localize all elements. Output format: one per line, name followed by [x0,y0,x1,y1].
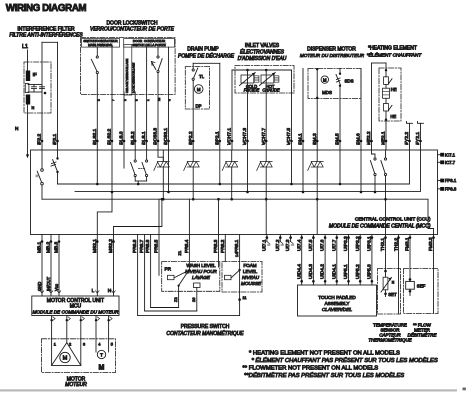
relay S3b blade [142,162,146,174]
dispenser switch actuator [337,78,341,82]
wire MB.2 [50,235,52,297]
wire PR8.7 run [145,310,197,312]
wire IF2.2 [41,42,43,150]
fuse lower tick [388,105,392,110]
wire DCS3.3 upper [157,47,159,56]
junction MB.2 [50,240,53,243]
junction HE box bottom [385,118,387,120]
valve cold arrow [240,73,256,86]
svg-text:IC7.1: IC7.1 [445,152,456,157]
svg-text:**DÉBITMÈTRE PAS PRÉSENT SUR: **DÉBITMÈTRE PAS PRÉSENT SUR TOUS LES MO… [244,372,404,379]
inductor IF upper winding [26,71,30,82]
flow sensor SEF body [406,281,415,289]
junction DLS2.2 on busB [111,191,114,194]
wire PR8.5 feed [158,199,160,234]
wire S2 to busA [57,173,59,184]
relay S1 contact bottom [41,182,44,185]
drain pump motor M [194,85,203,94]
junction UI7.6 upper [324,236,327,239]
junction TH2.1 [384,236,387,239]
svg-text:N: N [108,288,112,294]
svg-text:MOTEUR DU DISTRIBUTEUR: MOTEUR DU DISTRIBUTEUR [300,53,365,58]
svg-text:N: N [32,106,35,110]
svg-text:SWITCH DE LA PORTE: SWITCH DE LA PORTE [132,43,166,47]
junction motor pin 4 [95,319,97,321]
wire UIP3.2/UIP5.2 [359,235,361,286]
svg-text:UIP3.3: UIP3.3 [343,236,349,251]
heater hatch 2 [383,94,390,96]
arrow motor pin 2 [68,317,70,321]
junction UID4.2 lower [324,280,327,283]
wire TH2.1 drop [385,235,387,278]
svg-text:FROIDE: FROIDE [244,88,260,93]
wire motor pin 3 [80,316,82,366]
wire DLS2.1 lower [96,74,98,150]
wash contact 2a [168,275,175,279]
wire filter loop top [42,41,58,43]
svg-text:DISPENSER MOTOR: DISPENSER MOTOR [307,47,356,53]
thermal fuse lower [384,103,389,111]
dispenser motor box [308,69,361,99]
arrow MB.1 into MCU [40,291,44,294]
wire S1 to busC [41,185,43,199]
svg-text:THERMOMÉTRIQUE: THERMOMÉTRIQUE [368,337,412,343]
svg-text:M: M [63,356,68,362]
flow sensor bottom node [409,290,412,293]
arrow MB.2 into MCU [49,291,53,294]
wire DCS3.3 to triac jog [158,150,163,162]
connector pin DM.3 [316,140,319,143]
junction FM3.1 [409,236,412,239]
junction motor pin 2 [66,319,68,321]
wire DM.1 [302,69,304,151]
door switch label box [124,39,175,48]
connector pin FY2.2 [408,140,411,143]
wire T2 drain pump triac bottom [192,167,194,199]
wire inlet valves rail [232,69,292,71]
valve hot coil [274,76,279,82]
main switch blade [91,59,97,71]
connector pin DLS.3 [123,140,126,143]
junction VCH7.3 on busB [246,191,249,194]
wire PR8.8 run [138,314,240,316]
wire HE2.1 into CCU [385,150,387,158]
motor M circle [60,352,70,362]
svg-text:Vcc: Vcc [54,284,59,291]
wire PR8.7 drop [144,235,146,312]
door lock outer box [81,38,176,95]
wire T4 inlet valve triac top stub [265,150,267,162]
terminal stub FP8.1 [438,180,441,182]
wire DM.3 [316,69,318,151]
wire UI7.2 stub [279,235,281,242]
wire T2 drain pump triac top stub [192,150,194,162]
junction UI7.7 upper [336,236,339,239]
relay S4 contact bottom [374,173,376,175]
wire motor pin 4 [95,316,97,353]
dispenser switch contact bottom [339,85,341,87]
connector pin DM.5 [339,140,342,143]
wire MB.1 [41,235,43,297]
svg-text:Z1: Z1 [177,250,182,255]
junction S5 on busC [384,198,387,201]
junction PR8.3 feed on busC [217,198,220,201]
wire T3 inlet valve triac bottom [231,167,233,199]
connector tick FY2.2 [407,122,413,124]
svg-text:PR: PR [165,267,172,272]
junction UI7.5 upper [312,236,315,239]
wire FM3.1 drop [409,235,411,282]
wire T1 door triac top stub [162,150,164,162]
svg-text:HE: HE [390,114,396,119]
wire TH2.2 drop [398,235,400,314]
junction MB.1 [41,240,44,243]
wire PR8.5 drop [158,235,160,276]
wire S4 to busB [374,176,376,192]
wire L1 mains lower [27,105,29,157]
wire motor pin 2 [66,316,68,343]
connector pin DLS.1 [145,140,148,143]
junction UI7.2 [279,236,282,239]
relay S4 blade [370,161,374,174]
arrow motor pin 3 [82,317,84,321]
junction S4 on busB [374,191,377,194]
wire T5 dispenser triac bottom [316,167,318,199]
junction UIP3.3 upper [347,236,350,239]
thermistor bottom node [384,293,387,296]
relay S3a blade [131,162,135,174]
relay S5 blade [381,161,385,174]
resistor in filter [25,84,29,93]
wire MS2.1 to MCU [96,235,98,297]
svg-text:NIVEAU POUR: NIVEAU POUR [185,269,217,274]
main switch contact top [96,56,98,58]
wire IF2.1 [57,42,59,150]
svg-text:2: 2 [69,341,71,346]
junction T3 inlet valve triac on busC [230,198,233,201]
wire heating top rail [372,62,387,64]
junction DM.3 box bottom [316,97,318,99]
thermistor body [383,277,388,290]
svg-text:SET: SET [388,292,397,297]
junction MS2.2 [112,240,115,243]
door switch blade [158,59,162,71]
wire HE2.2 [371,63,373,150]
valve cold coil [254,76,259,82]
fuse upper tick [388,79,392,84]
wire Z2 riser [178,286,180,308]
connector tick FY2.1 [418,122,424,124]
svg-text:INLET VALVES: INLET VALVES [245,43,280,49]
wire MS2.2 to MCU [113,235,115,297]
wire DLS.3 into CCU stub [123,150,125,168]
connector pin DCS3.3 [157,140,160,143]
wire FY2.2 [409,123,411,150]
junction UID4.3 lower [312,280,315,283]
wire filter bottom rail [28,91,42,93]
wire DLS.1 [146,47,148,150]
svg-text:CLAVIER/DEL: CLAVIER/DEL [322,307,353,312]
svg-text:MCU: MCU [70,304,82,310]
bus A [58,150,410,184]
bus B [75,150,421,191]
svg-text:UIP5.1: UIP5.1 [343,264,349,279]
main switch label box [82,39,120,48]
thermistor arrowhead [388,278,391,281]
svg-text:FILTRE ANTI-INTERFÉRENCES: FILTRE ANTI-INTERFÉRENCES [9,32,83,39]
svg-text:* HEATING ELEMENT NOT PRESENT: * HEATING ELEMENT NOT PRESENT ON ALL MOD… [249,351,400,357]
wire PR8.8 drop [137,235,139,316]
motor control unit MCU box [32,296,119,316]
svg-text:PRESSURE SWITCH: PRESSURE SWITCH [181,324,230,330]
svg-text:DP: DP [196,104,202,109]
wire PR8.6 run [151,307,179,309]
svg-text:LEVEL: LEVEL [243,269,258,274]
svg-text:5: 5 [111,341,113,346]
svg-text:MDS: MDS [322,90,332,95]
motor winding triangle [52,343,81,366]
junction foam pin11 [238,298,241,301]
svg-text:UI7.1: UI7.1 [262,239,268,251]
wire T1 door triac bottom [162,167,164,199]
svg-text:IF: IF [33,72,37,78]
wire VCH7.3 [247,70,249,150]
triac T5 dispenser [308,162,324,171]
svg-text:MODULE DE COMMANDE DU MOTEUR: MODULE DE COMMANDE DU MOTEUR [33,310,120,315]
wire PR8.3 feed [218,199,220,234]
wash switch blade upper [175,270,189,277]
junction T2 drain pump triac on busC [192,198,195,201]
wire PR8.4 drop [188,235,190,271]
wire HE2.1 seg3 [385,98,387,103]
heater element HE [383,88,390,98]
wire thermistor tail [385,290,387,297]
wire HE2.1 seg2 [385,84,387,88]
valve hot body [261,75,274,83]
svg-text:TL: TL [199,74,205,79]
wash contact 2b [194,283,201,288]
pump switch TL contact top [192,69,194,71]
thermistor top node [384,270,387,273]
wire UI7.7/UID4.1 [336,235,338,286]
connector pin HE2.1 [385,140,388,143]
wire DLS.2 [134,92,136,150]
wire DM.5 [339,87,341,150]
valve cold body [241,75,254,83]
svg-text:MS2.2: MS2.2 [108,239,114,253]
svg-text:1: 1 [54,341,56,346]
thermistor arrow [381,278,392,293]
dispenser switch blade [336,75,340,85]
relay S3b contact bottom [146,174,148,176]
touch pad box [298,285,377,316]
door switch contact bottom [157,70,159,72]
interference filter box [24,62,51,113]
svg-text:ÉLECTROVANNES: ÉLECTROVANNES [240,49,285,56]
terminal FP8.8 [440,187,444,191]
terminal IC7.1 [440,153,444,157]
svg-text:MS2.1: MS2.1 [92,239,98,253]
wire TH2.1 feed [385,199,387,234]
svg-text:FP8.1: FP8.1 [445,178,457,183]
junction UIP5.2 lower [359,280,362,283]
heater hatch 1 [383,91,390,93]
unlock-lock box [124,45,132,96]
svg-text:N: N [15,126,19,132]
wire UI7.6/UID4.2 [324,235,326,286]
svg-text:UID4.2: UID4.2 [320,264,326,279]
svg-text:L: L [92,288,95,294]
wire DLS.1 into CCU [146,150,148,160]
svg-text:CONTACTEUR MANOMÉTRIQUE: CONTACTEUR MANOMÉTRIQUE [166,330,244,337]
wire PR8.6 drop [150,235,152,308]
dispenser motor M circle [321,76,328,83]
relay S3a contact bottom [134,174,136,176]
flow sensor top node [409,278,412,281]
arrow motor pin 4 [97,317,99,321]
relay S5 contact top [384,158,386,160]
svg-text:UID4.3: UID4.3 [308,264,314,279]
svg-text:UIP5.2: UIP5.2 [355,264,361,279]
svg-text:L1: L1 [22,44,28,50]
connector pin FY2.1 [419,140,422,143]
junction UIP5.3 lower [371,280,374,283]
wire S3 merge [135,180,146,182]
wire PR8.3 drop [218,235,220,268]
main switch contact bottom [96,71,98,73]
svg-text:MOTEUR: MOTEUR [65,382,87,388]
wire DP2.1 into CCU [219,150,221,184]
arrow MS2.2 into MCU [112,291,116,294]
wire DM.6 [360,69,362,151]
svg-text:WIRING DIAGRAM: WIRING DIAGRAM [6,3,87,14]
svg-text:TOUCH PAD/LED: TOUCH PAD/LED [318,295,356,300]
wire foam pin11 drop [239,270,241,315]
wire motor pin 1 [51,316,53,366]
svg-text:UI7.3: UI7.3 [285,239,291,251]
svg-text:UI7.2: UI7.2 [275,239,281,251]
svg-text:NIVEAU: NIVEAU [242,275,260,280]
foam switch blade [232,270,240,278]
junction VCH7.5 on busA [290,183,293,186]
junction TH2.2 [397,236,400,239]
pump switch TL contact bottom [192,78,194,80]
wire FM3.3 drop [433,235,435,314]
connector pin DLS2.1 [96,140,99,143]
door switch actuator [152,62,156,70]
arrow MB.3 into MCU [57,291,61,294]
svg-text:MOUSSE: MOUSSE [241,281,262,286]
svg-text:CHAUDE: CHAUDE [262,88,280,93]
relay S3a contact top [134,160,136,162]
svg-text:14: 14 [234,252,239,257]
svg-text:3: 3 [83,341,85,346]
wire S3a down [134,177,136,181]
junction MS2.1 [96,240,99,243]
wire DM.6 into CCU [360,150,362,191]
junction DM.3 box top [316,68,318,70]
junction T4 inlet valve triac on busC [265,198,268,201]
junction T1 door triac on busC [162,198,165,201]
capacitor C1 [32,85,37,93]
wire DCS3.3 lower [157,73,159,150]
wash switch contact lower [178,285,180,287]
arrow mains end [26,154,29,158]
connector tick UI7.2 [280,242,283,246]
svg-text:2h: 2h [157,97,161,101]
wire IF2.2 into CCU [41,150,43,169]
relay S2 actuator [51,162,56,166]
capacitor C2 [40,85,45,93]
page corner speck [463,388,466,391]
svg-text:MB.2: MB.2 [46,241,52,253]
svg-text:SEF: SEF [417,284,426,289]
page edge artifact bar [0,389,457,391]
wire UI7.4/UID4.4 [301,235,303,286]
svg-text:MB.3: MB.3 [54,241,60,253]
central control unit CCU box [31,150,438,235]
junction UID4.4 lower [300,280,303,283]
connector pin VCH7.1 [231,140,234,143]
connector pin DM.1 [302,140,305,143]
connector pin HE2.2 [370,140,373,143]
junction motor pin 5 [107,319,109,321]
dispenser switch contact top [339,73,341,75]
relay S2 contact top [56,157,58,159]
wire VCH7.7 [265,70,267,150]
svg-text:MODULE DE COMMANDE CENTRAL (MC: MODULE DE COMMANDE CENTRAL (MCC) [329,224,431,230]
svg-text:11: 11 [243,296,247,300]
wire UI7.5 feed [316,199,318,234]
relay S5 contact bottom [384,173,386,175]
junction UIP3.1 upper [371,236,374,239]
flow meter box [404,269,439,314]
wire UI7.5/UID4.3 [312,235,314,286]
wire DM.5 stub top [339,69,341,73]
relay S1 blade [37,171,41,182]
wire DLS.3 [123,92,125,150]
junction FM3.3 [432,236,435,239]
wire UIP3.3/UIP5.1 [348,235,350,286]
junction motor pin 1 [50,319,52,321]
svg-text:MAIN PRINCIPAL: MAIN PRINCIPAL [88,43,113,47]
junction S3 on busA [137,183,140,186]
door switch contact top [157,56,159,58]
wire HE2.1 lower [385,111,387,150]
wash switch blade lower [179,270,189,285]
connector pin IF2.1 [56,140,59,143]
svg-text:DRAIN PUMP: DRAIN PUMP [187,47,219,53]
connector pin DP2.2 [192,140,195,143]
svg-text:CENTRAL CONTROL UNIT (CCU): CENTRAL CONTROL UNIT (CCU) [355,217,431,223]
wire L1 mains upper [27,50,29,71]
wire DLS.2 into CCU [134,150,136,160]
svg-text:M: M [197,87,201,92]
svg-text:UID4.1: UID4.1 [331,264,337,279]
svg-text:VERROU/CONTACTEUR DE PORTE: VERROU/CONTACTEUR DE PORTE [90,27,175,33]
svg-text:DÉBITMÈTRE: DÉBITMÈTRE [407,332,437,338]
junction UI7.3 [289,236,292,239]
wire VCH7.3 into CCU [247,150,249,191]
arrow motor pin 5 [110,317,112,321]
valve hot arrow [260,73,276,86]
terminal stub IC7.1 [438,154,441,156]
svg-text:GND: GND [37,282,42,291]
junction DM.1 on busB [302,191,305,194]
wire PR8.1 drop [239,235,241,271]
wash switch pivot [188,269,190,271]
svg-text:M: M [323,77,327,82]
